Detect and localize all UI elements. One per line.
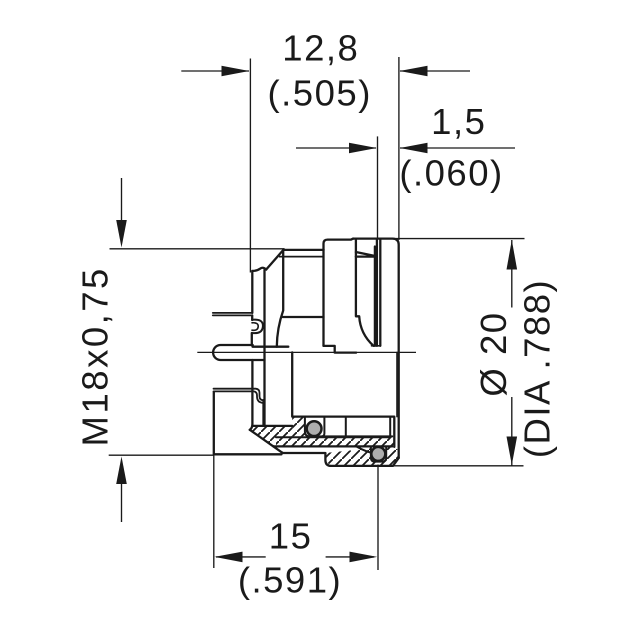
svg-text:Ø 20: Ø 20 [473,311,514,396]
svg-text:15: 15 [269,516,313,557]
svg-text:(DIA .788): (DIA .788) [517,279,558,458]
svg-text:(.505): (.505) [268,73,372,114]
svg-text:(.591): (.591) [238,559,342,600]
svg-text:1,5: 1,5 [431,101,486,142]
svg-text:12,8: 12,8 [282,28,359,69]
svg-text:M18x0,75: M18x0,75 [75,266,116,446]
svg-text:(.060): (.060) [399,153,503,194]
